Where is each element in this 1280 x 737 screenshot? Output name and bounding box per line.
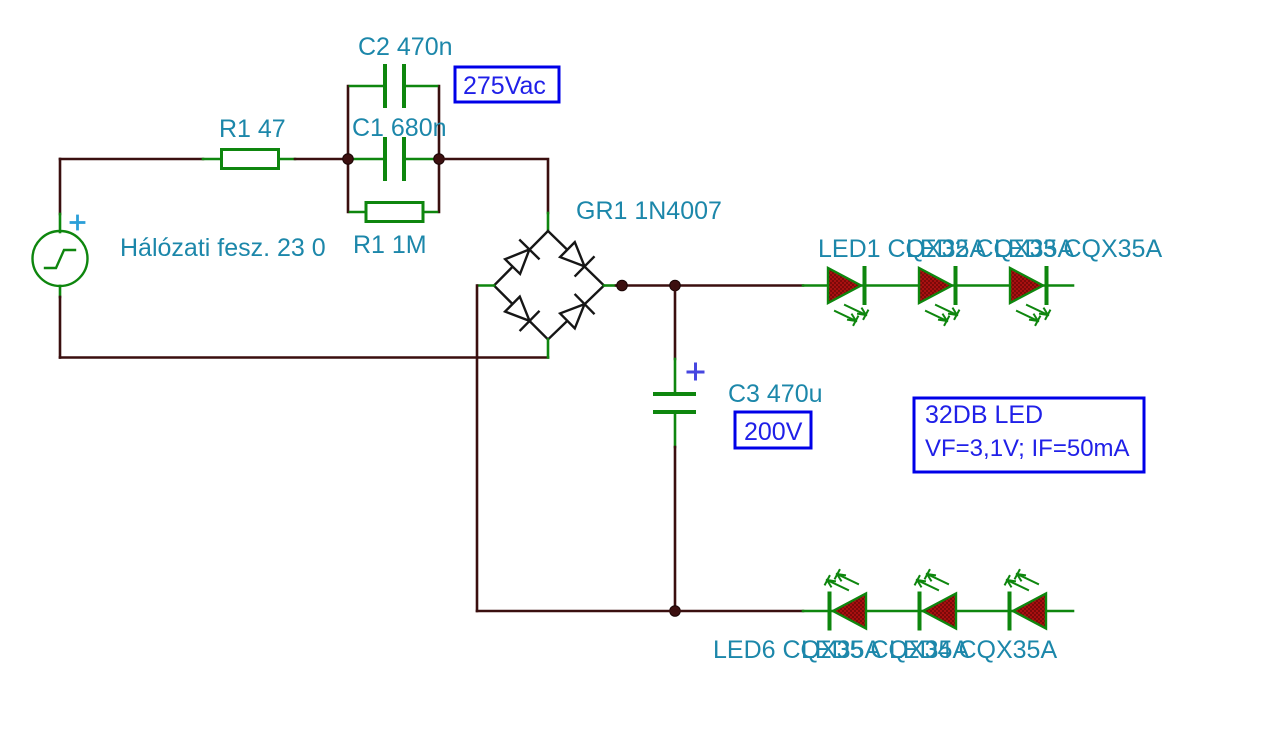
- diode D4 lower-right of bridge: [558, 295, 593, 330]
- LED2: [919, 268, 959, 325]
- wire: green stub right of bridge: [604, 284, 616, 287]
- wire: left bridge vertical down: [476, 286, 479, 612]
- capacitor C1 680n: [354, 139, 435, 179]
- capacitor C2 470n: [350, 66, 437, 106]
- node B junction dot right: [434, 154, 445, 165]
- LED6: [825, 570, 866, 629]
- wire: green pin stub below source: [59, 286, 62, 297]
- wire: green pin stub right of R1: [279, 158, 296, 161]
- note box 200V: [735, 412, 811, 448]
- svg-text:LED3 CQX35A: LED3 CQX35A: [994, 235, 1162, 263]
- LED5: [915, 570, 956, 629]
- junction dot at C3 bottom: [670, 606, 681, 617]
- voltage source plus sign: [71, 216, 84, 229]
- svg-text:32DB LED: 32DB LED: [925, 401, 1043, 429]
- resistor R1 1M: [350, 203, 437, 222]
- node A junction dot left: [343, 154, 354, 165]
- wire: left vertical down to bottom return: [59, 297, 62, 358]
- wire: bottom LED row feed: [477, 610, 803, 613]
- svg-text:R1 1M: R1 1M: [353, 231, 427, 259]
- LED3: [1010, 268, 1050, 325]
- wire: node B to bridge top corner: [443, 159, 548, 213]
- voltage source VG1 circle: [33, 231, 88, 286]
- LED1: [828, 268, 868, 325]
- wire: bridge output to LED row: [616, 284, 803, 287]
- svg-text:C2 470n: C2 470n: [358, 33, 453, 61]
- wire: green pin stub above source: [59, 214, 62, 232]
- svg-text:LED4 CQX35A: LED4 CQX35A: [889, 636, 1057, 664]
- capacitor C3 470u: [674, 286, 677, 360]
- wire: left vertical from top wire to source: [59, 159, 62, 214]
- wire: bottom LED row green rail: [803, 610, 1073, 613]
- wire: green pin stub to bridge top: [547, 213, 550, 231]
- wire: top horizontal from source to R1: [60, 158, 203, 161]
- svg-text:VF=3,1V; IF=50mA: VF=3,1V; IF=50mA: [925, 435, 1130, 462]
- svg-text:200V: 200V: [744, 418, 803, 446]
- svg-text:C3 470u: C3 470u: [728, 380, 823, 408]
- LED4: [1005, 570, 1046, 629]
- svg-text:R1 47: R1 47: [219, 115, 286, 143]
- wire: parallel block left vertical: [347, 86, 350, 212]
- note box 275Vac: [455, 67, 559, 102]
- diode D1 upper-left of bridge: [503, 240, 538, 275]
- wire: green pin stub left of R1: [203, 158, 221, 161]
- wire: green stub left of bridge: [478, 284, 494, 287]
- bridge rectifier GR1 diamond: [494, 231, 604, 340]
- svg-text:275Vac: 275Vac: [463, 72, 546, 100]
- note box 32DB LED: [914, 398, 1144, 472]
- wire: dark segment R1 to node A: [295, 158, 348, 161]
- resistor R1 47: [222, 150, 279, 169]
- wire: parallel block right vertical: [438, 86, 441, 212]
- C3 plus sign: [688, 364, 703, 379]
- wire: top LED row green rail: [803, 284, 1073, 287]
- svg-text:Hálózati fesz. 23 0: Hálózati fesz. 23 0: [120, 234, 326, 262]
- svg-text:GR1 1N4007: GR1 1N4007: [576, 197, 722, 225]
- junction dot at bridge output: [617, 280, 628, 291]
- wire: green stub below bridge: [547, 340, 550, 358]
- wire: bottom return horizontal to bridge bottom: [60, 356, 548, 359]
- diode D2 upper-right of bridge: [558, 240, 593, 275]
- voltage source ramp symbol: [45, 250, 75, 268]
- junction dot at C3 top: [670, 280, 681, 291]
- diode D3 lower-left of bridge: [503, 295, 538, 330]
- svg-text:C1 680n: C1 680n: [352, 114, 447, 142]
